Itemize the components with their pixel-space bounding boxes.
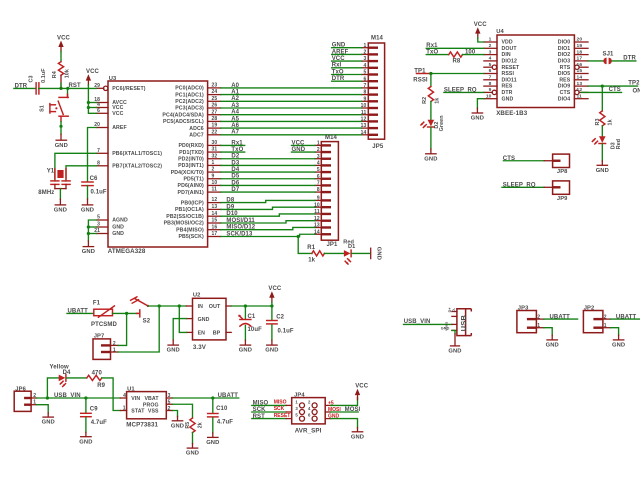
wire U3 ground pins rail [88,220,96,241]
svg-text:PB5(SCK): PB5(SCK) [178,234,203,240]
svg-text:DIO12: DIO12 [502,59,518,65]
svg-text:A0: A0 [231,83,239,89]
wire S2 to U2 IN [148,305,187,307]
wire XBee DIO3 to SJ1 [588,60,603,62]
svg-text:1: 1 [33,400,36,406]
capacitor C6 0.1uF [82,176,107,196]
capacitor C2 0.1uF [267,306,294,345]
svg-text:10: 10 [212,180,218,186]
svg-text:RES: RES [559,77,570,83]
svg-text:RESET: RESET [274,413,291,419]
ground below JP4 [351,432,364,441]
ground for D1 (rotated) [371,247,382,260]
wire SLEEP_RQ net to XBee DTR [444,87,484,93]
U3 pin 16 PB4(MISO) [176,224,221,233]
ground below C9 [79,437,92,446]
svg-text:PC2(ADC2): PC2(ADC2) [175,99,204,105]
svg-text:PB1(OC1A): PB1(OC1A) [175,207,204,213]
svg-text:AREF: AREF [112,125,127,131]
JP5 pin 4 [362,63,378,69]
wire USB GND to ground [452,330,455,334]
JP5 pin 14 [361,130,378,136]
svg-text:2: 2 [364,50,367,56]
wire D1 to ground [352,252,371,254]
svg-text:4.7uF: 4.7uF [217,420,233,426]
ground below Y1 [54,205,67,214]
svg-text:9: 9 [317,196,320,202]
svg-text:6: 6 [489,68,492,74]
wire MOSI net from JP4 [331,407,361,413]
svg-text:PROG: PROG [143,402,159,408]
svg-text:C6: C6 [90,176,98,182]
svg-text:D4: D4 [231,167,239,173]
junction GND pin21 [87,232,90,235]
U3 pin 21 GND [94,228,124,237]
svg-text:5: 5 [168,400,171,406]
svg-text:MOSI/D11: MOSI/D11 [226,218,255,224]
wire MISO net to JP4 [252,401,286,407]
svg-text:PC4(ADC4/SDA): PC4(ADC4/SDA) [162,112,204,118]
svg-text:DIO1: DIO1 [558,46,571,52]
svg-text:1: 1 [317,141,320,147]
resistor R3 1k [595,111,614,126]
wire UBATT net to F1 [67,309,94,315]
U3 pin 7 PB6(XTAL1/TOSC1) [97,148,163,157]
svg-text:GND: GND [55,143,68,149]
svg-text:ADC7: ADC7 [189,133,204,139]
svg-text:Rx1: Rx1 [231,140,243,146]
ground below C10 [206,437,219,446]
svg-text:D6: D6 [231,180,239,186]
U3 pin 13 PB1(OC1A) [175,204,221,213]
svg-text:RSSI: RSSI [502,71,515,77]
svg-text:3: 3 [168,393,171,399]
svg-text:1: 1 [212,160,215,166]
U3 pin 25 PC2(ADC2) [175,96,221,105]
U4 pin 10 GND [484,93,514,102]
svg-text:6: 6 [97,108,100,114]
svg-text:PC0(ADC0): PC0(ADC0) [175,86,204,92]
power VCC above JP4 [355,384,369,400]
JP1 pin 9 [315,196,331,202]
wire USB_VIN net JP6 to U1 [37,393,121,399]
svg-text:8: 8 [317,187,320,193]
U3 pin 2 PD4(XCK/T0) [171,167,221,176]
wire D2 net U3 to JP1 [221,154,315,160]
svg-text:2: 2 [317,147,320,153]
svg-text:9: 9 [364,96,367,102]
svg-text:2: 2 [489,43,492,49]
svg-text:14: 14 [577,75,583,81]
solder jumper SJ1 [603,52,615,65]
junction D4 branch [46,396,49,399]
svg-text:JP6: JP6 [15,386,26,392]
svg-text:C1: C1 [248,314,256,320]
U4 pin 15 DIO5 [558,68,588,77]
wire A1 net U3 to JP5 [221,90,362,96]
wire R4 to RST [60,75,62,88]
wire A6 net U3 to JP5 [221,123,362,129]
U3 pin 20 AREF [94,122,126,131]
svg-text:8MHz: 8MHz [38,190,54,196]
svg-text:AGND: AGND [112,218,128,224]
wire UBATT net at JP2 [610,314,640,320]
wire A3 net U3 to JP5 [221,103,362,109]
U4 pin 19 DIO1 [558,43,588,52]
U4 pin 14 RES [559,75,588,84]
junction R4/RST [59,87,62,90]
U4 pin 6 RSSI [484,68,515,77]
U4 pin 13 DIO9 [558,81,588,90]
svg-text:8: 8 [489,81,492,87]
svg-text:D8: D8 [226,198,234,204]
svg-text:SJ1: SJ1 [603,52,615,58]
svg-text:32: 32 [212,153,218,159]
connector JP8 [544,154,569,175]
power VCC above R4 [57,35,71,51]
svg-text:PD6(AIN0): PD6(AIN0) [178,183,204,189]
svg-text:DIO2: DIO2 [558,52,571,58]
svg-text:VCC: VCC [355,384,369,390]
wire VCC to XBee pin1 [478,38,484,42]
U4 pin 18 DIO2 [558,49,588,58]
LED D4 Yellow [50,364,72,386]
svg-text:RxI: RxI [332,63,342,69]
svg-text:D5: D5 [231,174,239,180]
svg-text:PB0(ICP): PB0(ICP) [181,200,204,206]
wire VCC stem to rail [271,302,273,306]
svg-text:TP2: TP2 [628,81,640,87]
svg-text:GND: GND [239,348,252,354]
connector JP6 [14,386,36,411]
svg-text:VBAT: VBAT [144,396,159,402]
svg-text:UBATT: UBATT [616,314,637,320]
LED D1 Red [343,239,355,264]
wire A2 net U3 to JP5 [221,96,362,102]
svg-text:14: 14 [212,211,218,217]
svg-text:0.1uF: 0.1uF [41,68,47,83]
LED D2 Green [421,115,445,131]
wire D3 net U3 to JP1 [221,160,315,166]
svg-text:12: 12 [212,197,218,203]
svg-text:D1: D1 [348,244,355,250]
JP1 pin 11 [314,209,331,215]
junction S2 out / JP7 pin1 [158,304,161,307]
svg-text:BP: BP [213,331,221,337]
wire VCC to R4 [60,52,62,62]
svg-text:4: 4 [364,63,367,69]
wire UBATT net from U1 VBAT [173,393,239,399]
ground below USB [448,346,461,355]
wire A5 net U3 to JP5 [221,116,362,122]
resistor R8 100 [449,50,476,65]
JP1 pin 2 [315,147,331,153]
wire D10 net U3 to JP1 [221,211,315,217]
wire USB_VIN net to USB vbus [404,319,452,325]
wire U1 PROG to R5 [173,404,193,418]
ground below S1 [55,140,68,149]
JP1 pin 12 [314,216,331,222]
wire DTR net stub at JP5 pin 6 [332,76,362,82]
wire EN tie to IN [179,306,186,332]
ground below JP6 [42,417,55,426]
svg-text:DIO3: DIO3 [558,59,571,65]
USB connector [441,307,472,336]
svg-text:3: 3 [97,222,100,228]
U4 pin 20 DIO0 [558,37,588,46]
svg-text:RESET: RESET [502,65,521,71]
U4 pin 8 RES [484,81,513,90]
wire VCC rail to AVCC/VCC pins [88,85,96,113]
svg-text:13: 13 [577,81,583,87]
wire A7 net U3 to JP5 [221,130,362,136]
charge controller U1 MCP73831 [120,387,172,429]
svg-text:GND: GND [332,43,346,49]
wire R2 to D2 [430,102,432,120]
svg-text:U3: U3 [109,76,117,82]
svg-text:PB7(XTAL2/TOSC2): PB7(XTAL2/TOSC2) [112,164,162,170]
ground below U2 [167,345,180,354]
wire USB_VIN up to D4 [47,378,58,398]
wire U2 GND to ground [173,319,186,340]
svg-text:DTR: DTR [502,90,513,96]
U3 pin 4 VCC [97,102,124,111]
svg-text:USB_VIN: USB_VIN [54,393,81,399]
svg-text:5: 5 [97,215,100,221]
voltage regulator U2 3.3V [186,292,231,350]
resistor R5 2k [185,418,204,433]
svg-text:JP9: JP9 [557,196,568,202]
JP1 pin 10 [314,202,331,208]
svg-text:16: 16 [577,62,583,68]
wire JP7 pin2 to F1 junction [118,313,126,345]
wire DTR net left [14,83,35,89]
svg-text:EN: EN [198,331,206,337]
U3 pin 18 AVCC [94,97,127,106]
wire Rx1 net to XBee DOUT [426,43,484,49]
svg-text:SCK/D13: SCK/D13 [226,231,253,237]
connector JP2 [583,306,610,333]
wire XTAL1 U3 pin7 to resonator [55,153,97,181]
svg-text:GND: GND [186,451,199,457]
svg-text:TxO: TxO [231,147,243,153]
svg-text:2: 2 [212,167,215,173]
svg-text:A3: A3 [231,103,239,109]
svg-text:DIO9: DIO9 [558,84,571,90]
U3 pin 1 PD3(INT1) [178,160,221,169]
U3 pin 22 ADC7 [189,129,221,138]
svg-text:PC5(ADC5/SCL): PC5(ADC5/SCL) [163,119,204,125]
junction GND pin3 [87,225,90,228]
svg-text:SCK: SCK [253,407,267,413]
ground below U1 VSS [171,421,184,430]
svg-text:VSS: VSS [148,409,159,415]
U4 pin 7 DIO11 [484,75,517,84]
svg-text:D4: D4 [63,370,71,376]
svg-text:11: 11 [212,187,218,193]
resistor R4 10k [52,62,71,79]
svg-text:R2: R2 [422,97,428,104]
XBee module U4 box [497,35,574,108]
test point TP1 on RSSI [413,68,429,83]
svg-text:3.3V: 3.3V [193,344,207,351]
svg-text:2k: 2k [197,422,203,428]
wire resonator to ground [59,189,61,200]
svg-text:PD4(XCK/T0): PD4(XCK/T0) [171,170,204,176]
svg-text:PTCSMD: PTCSMD [91,322,117,328]
svg-text:C2: C2 [276,315,284,321]
U4 pin 12 CTS [560,87,588,96]
svg-text:4: 4 [317,161,320,167]
wire JP7 pin1 to S2 out [118,306,159,352]
wire D5 net U3 to JP1 [221,174,315,180]
svg-text:GND: GND [376,247,382,260]
wire RST net C3 to U3 reset pin [39,83,97,89]
JP5 pin 1 [362,43,378,49]
svg-text:D-: D- [452,307,456,312]
U3 pin 32 PD2(INT0) [178,153,221,162]
svg-text:S2: S2 [143,318,151,324]
ISP header JP4 AVR_SPI [274,393,342,435]
svg-text:RST: RST [69,83,82,89]
JP5 pin 6 [362,76,378,82]
U4 pin 16 RTS [560,62,588,71]
svg-text:DIO5: DIO5 [558,71,571,77]
U3 pin 17 PB5(SCK) [178,231,220,240]
svg-text:1: 1 [364,43,367,49]
junction VCC pin4 [87,106,90,109]
svg-text:TxO: TxO [426,50,438,56]
wire R9 to U1 STAT [102,378,121,411]
wire MISO/D12 net U3 to JP1 [221,225,315,231]
LED D3 Red [592,136,621,149]
svg-text:16: 16 [212,224,218,230]
svg-text:0.1uF: 0.1uF [91,189,107,195]
svg-text:26: 26 [212,103,218,109]
svg-text:GND: GND [441,326,450,330]
svg-text:GND: GND [265,348,278,354]
svg-text:18: 18 [577,49,583,55]
svg-text:4.7uF: 4.7uF [91,420,107,426]
ground below U3 [82,247,95,256]
JP1 pin 1 [315,141,331,147]
svg-text:SLEEP_RQ: SLEEP_RQ [503,183,536,189]
svg-text:D9: D9 [226,204,234,210]
junction C9 branch [84,396,87,399]
wire R5 to ground [192,433,194,444]
svg-text:GND: GND [424,156,437,162]
svg-text:R5: R5 [185,422,191,429]
svg-text:XBEE-1B3: XBEE-1B3 [496,110,528,117]
svg-text:U2: U2 [193,292,201,298]
svg-text:C10: C10 [216,406,228,412]
svg-text:GND: GND [171,423,184,429]
svg-text:PD2(INT0): PD2(INT0) [178,156,204,162]
svg-text:2: 2 [113,341,116,347]
svg-text:6: 6 [317,174,320,180]
switch S1 [40,88,69,121]
svg-text:C9: C9 [90,407,98,413]
svg-text:13: 13 [212,204,218,210]
svg-text:CTS: CTS [560,90,571,96]
svg-text:UBATT: UBATT [68,309,89,315]
JP1 pin 4 [315,161,331,167]
svg-text:RSSI: RSSI [413,78,428,84]
power VCC above C2 [268,286,282,302]
ground below R5 [186,448,199,457]
wire XBee GND pin to ground [477,99,484,109]
svg-text:TP1: TP1 [414,68,426,74]
svg-text:1: 1 [113,348,116,354]
wire R1 to D1 [324,252,344,254]
svg-text:PB6(XTAL1/TOSC1): PB6(XTAL1/TOSC1) [112,151,162,157]
connector JP3 [517,306,544,333]
capacitor C9 4.7uF [81,398,107,436]
junction below S1 [59,125,62,128]
wire AREF to C6 [88,128,97,182]
svg-text:GND: GND [79,439,92,445]
svg-text:F1: F1 [93,301,101,307]
svg-text:PB3(MOSI/OC2): PB3(MOSI/OC2) [164,221,204,227]
svg-text:20: 20 [577,37,583,43]
svg-text:5: 5 [489,62,492,68]
ground below D3 [596,165,609,174]
junction C1 [244,304,247,307]
ground below XBee [471,113,484,122]
JP5 pin 2 [362,50,378,56]
svg-text:5: 5 [364,70,367,76]
svg-text:3: 3 [364,56,367,62]
U3 pin 24 PC1(ADC1) [175,89,221,98]
svg-text:3: 3 [317,154,320,160]
wire D4 net U3 to JP1 [221,167,315,173]
wire Rx1 net stub [221,140,245,146]
svg-text:VCC: VCC [332,56,346,62]
fuse F1 PTCSMD [91,301,117,328]
svg-text:R1: R1 [307,245,315,251]
svg-text:GND: GND [112,231,124,237]
resistor R2 1k [422,87,440,104]
junction C2/VCC [270,304,273,307]
svg-text:3: 3 [489,49,492,55]
power VCC above XBee VDD [474,22,488,38]
svg-text:A4: A4 [231,110,239,116]
svg-text:1: 1 [537,323,540,329]
ground below C6 [81,205,94,214]
svg-text:R3: R3 [595,118,601,125]
svg-text:PC6(/RESET): PC6(/RESET) [112,86,146,92]
svg-text:22: 22 [212,129,218,135]
U3 pin 3 GND [97,222,125,231]
svg-text:27: 27 [212,109,218,115]
svg-text:JP1: JP1 [327,242,339,248]
wire UBATT net at JP3 [544,314,578,320]
svg-text:PC1(ADC1): PC1(ADC1) [175,92,204,98]
svg-text:U1: U1 [127,387,135,393]
wire DTR net from SJ1 [612,56,637,62]
svg-text:6: 6 [364,76,367,82]
svg-text:GND: GND [471,116,484,122]
JP1 pin 6 [315,174,331,180]
svg-text:9: 9 [212,173,215,179]
junction AVCC [87,101,90,104]
svg-text:8: 8 [364,90,367,96]
ground below C2 [265,345,278,354]
wire MOSI/D11 net U3 to JP1 [221,218,315,224]
wire TxO net stub at JP5 pin 5 [332,69,362,75]
wire D4 to R9 [67,377,87,379]
svg-text:24: 24 [212,89,218,95]
